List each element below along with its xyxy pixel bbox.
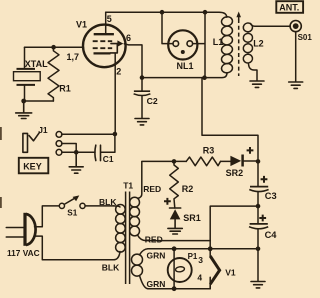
ground C2 — [135, 119, 149, 125]
wire top B+ rail — [106, 12, 227, 17]
node rail junction left — [160, 10, 165, 15]
node P1 top — [172, 246, 177, 251]
box ANT — [276, 1, 303, 13]
svg-text:BLK: BLK — [102, 263, 120, 273]
wire NL1 left leg — [162, 12, 173, 43]
ground xtal — [16, 101, 32, 119]
transformer T1 primary — [114, 205, 126, 260]
transformer T1 secondary HV — [130, 162, 146, 241]
label L2 — [253, 38, 264, 48]
wire B+ line R3 — [142, 160, 186, 162]
label C4 — [265, 230, 278, 240]
svg-text:V1: V1 — [76, 19, 87, 29]
label RED top — [143, 184, 161, 194]
label R2 — [182, 184, 194, 194]
node mid junction — [202, 75, 207, 80]
label 5 — [107, 14, 112, 24]
wire xtal top lead — [24, 47, 26, 68]
wire mid vertical down — [202, 78, 258, 187]
svg-text:L2: L2 — [253, 38, 264, 48]
core dashed L1/L2 — [238, 19, 240, 76]
label XTAL — [25, 59, 48, 69]
svg-text:GRN: GRN — [147, 279, 166, 289]
svg-text:SR2: SR2 — [226, 168, 244, 178]
tube V1 cathode step lead — [111, 44, 118, 53]
svg-text:J1: J1 — [38, 125, 48, 135]
label 6 — [126, 33, 131, 43]
lamp NL1 dot — [181, 50, 185, 54]
wire heater top line — [148, 248, 258, 250]
svg-text:RED: RED — [145, 234, 163, 244]
wire rail C3-C4 — [257, 192, 259, 224]
edge mark 1 — [0, 127, 2, 140]
label SR2 — [226, 168, 244, 178]
svg-text:3: 3 — [198, 255, 203, 265]
node rail heater junction — [256, 247, 261, 252]
tube V1 plate bar — [94, 33, 114, 35]
plus C3 — [261, 176, 268, 183]
core arrow — [236, 12, 241, 21]
wire pin 5 lead — [105, 12, 107, 34]
svg-text:NL1: NL1 — [177, 61, 194, 71]
label SO1 — [298, 33, 313, 42]
node pin6-C2 junction — [140, 75, 145, 80]
label SR1 — [183, 213, 201, 223]
svg-text:ANT.: ANT. — [279, 3, 299, 13]
wire rail C4 to ground — [257, 229, 259, 281]
svg-text:GRN: GRN — [147, 250, 166, 260]
tube V1 grid dashes — [93, 41, 113, 48]
svg-text:C1: C1 — [103, 154, 114, 164]
svg-text:L1: L1 — [213, 37, 224, 47]
wire xtal bottom lead — [25, 85, 54, 101]
resistor R1 — [48, 47, 59, 101]
capacitor C2 — [134, 78, 151, 118]
node rail SR2 junction — [256, 159, 261, 164]
label C2 — [147, 96, 158, 106]
label L1 — [213, 37, 224, 47]
svg-text:T1: T1 — [123, 181, 133, 191]
wire L2 top to SO1 — [251, 24, 291, 27]
ground L2 — [250, 81, 264, 87]
tube V1 cathode bar — [94, 52, 111, 54]
plus C4 — [259, 215, 266, 222]
label T1 — [123, 181, 133, 191]
inductor L1 — [221, 16, 233, 74]
capacitor C4 — [249, 224, 268, 229]
wire B- midline — [210, 206, 258, 249]
svg-text:4: 4 — [197, 272, 202, 282]
node J1 ground junction — [74, 150, 79, 155]
resistor R2 — [170, 161, 179, 208]
svg-text:R3: R3 — [203, 145, 215, 155]
label 117 VAC — [7, 248, 40, 258]
switch S1 — [59, 195, 85, 208]
transformer T1 filament winding — [132, 249, 149, 289]
wire NL1 right leg — [193, 12, 205, 78]
wire plug bottom — [35, 236, 114, 260]
box KEY — [19, 158, 49, 174]
svg-text:117 VAC: 117 VAC — [7, 248, 40, 258]
label C1 — [103, 154, 114, 164]
op tube V1 envelope — [83, 25, 126, 68]
label 1,7 — [67, 52, 80, 62]
node xtal ground junction — [21, 99, 26, 104]
wire plug top to S1 — [35, 206, 60, 227]
svg-text:S1: S1 — [67, 209, 77, 218]
jack J1 plug — [23, 133, 39, 152]
wire J1 top contact — [62, 133, 115, 135]
label BLK top — [99, 197, 117, 207]
svg-text:R2: R2 — [182, 184, 194, 194]
transformer T1 core — [126, 192, 130, 285]
label 2 — [116, 67, 121, 77]
ground SO1 — [289, 82, 303, 88]
wire mid horizontal to L1 — [142, 73, 227, 78]
label J1 — [38, 125, 48, 135]
capacitor C1 — [95, 145, 101, 160]
plus SR1 — [164, 198, 171, 205]
wire L2 bottom to ground — [249, 64, 258, 81]
wire grid line y48 — [25, 46, 84, 48]
ground J1 — [69, 152, 83, 173]
wire C1 to cathode — [101, 134, 115, 152]
svg-text:RED: RED — [143, 184, 161, 194]
svg-text:S01: S01 — [298, 33, 313, 42]
svg-text:1,7: 1,7 — [67, 52, 80, 62]
wire heater bottom line — [148, 277, 210, 288]
wire R3 to SR2 — [221, 160, 231, 162]
label RED mid — [145, 234, 163, 244]
node rail junction right — [203, 10, 208, 15]
capacitor C3 — [249, 187, 268, 192]
plug 117VAC — [25, 213, 36, 246]
label P1 — [188, 252, 198, 261]
label GRN top — [147, 250, 166, 260]
svg-text:6: 6 — [126, 33, 131, 43]
wire J1 middle contact — [62, 144, 77, 153]
wire pin 2 cathode down — [114, 53, 116, 134]
inductor L2 — [243, 22, 254, 63]
diode SR1 — [170, 208, 181, 219]
svg-text:2: 2 — [116, 67, 121, 77]
svg-text:R1: R1 — [59, 84, 71, 94]
label BLK bottom — [102, 263, 120, 273]
ground main rail — [251, 282, 265, 288]
wire pin 6 to C2 node — [124, 44, 142, 78]
label V1 — [76, 19, 87, 29]
svg-text:KEY: KEY — [23, 162, 42, 172]
node R2 top junction — [172, 159, 177, 164]
connector SO1 — [290, 21, 301, 32]
svg-text:SR1: SR1 — [183, 213, 201, 223]
svg-text:C2: C2 — [147, 96, 158, 106]
wire S1 to T1 primary — [85, 205, 113, 207]
svg-text:V1: V1 — [225, 267, 236, 277]
svg-text:P1: P1 — [188, 252, 198, 261]
crystal XTAL — [14, 69, 41, 85]
label 4 — [197, 272, 202, 282]
diode SR2 — [230, 155, 242, 167]
svg-text:C4: C4 — [265, 230, 278, 240]
label C3 — [265, 191, 277, 201]
label GRN bottom — [147, 279, 166, 289]
plug prongs — [6, 228, 24, 238]
label R3 — [203, 145, 215, 155]
svg-text:XTAL: XTAL — [25, 59, 48, 69]
node pin3 junction — [208, 246, 213, 251]
node P1 bottom — [172, 286, 177, 291]
edge mark 2 — [0, 197, 2, 208]
wire SR2 to rail — [244, 160, 258, 162]
lamp NL1 envelope — [168, 30, 197, 59]
tube V1 grid arrow pin 6 — [111, 40, 123, 46]
node cathode-J1 junction — [113, 132, 118, 137]
lamp NL1 electrodes — [173, 41, 193, 47]
jack J1 contacts — [56, 132, 62, 156]
svg-text:5: 5 — [107, 14, 112, 24]
lamp P1 — [168, 249, 192, 289]
label V1 heater — [225, 267, 236, 277]
node rail mid junction — [256, 204, 261, 209]
wire HV bottom red to B- — [146, 240, 210, 242]
node xtal-R1 junction — [51, 45, 56, 50]
label 3 — [198, 255, 203, 265]
label NL1 — [177, 61, 194, 71]
resistor R3 — [186, 157, 220, 166]
label R1 — [59, 84, 71, 94]
plus SR2 — [247, 147, 254, 154]
wire J1 bottom contact — [62, 151, 95, 153]
wire SO1 to ground — [295, 32, 297, 82]
heater V1 chevron — [210, 249, 219, 289]
ground SR1 — [168, 219, 182, 234]
label S1 — [67, 209, 77, 218]
svg-text:C3: C3 — [265, 191, 277, 201]
